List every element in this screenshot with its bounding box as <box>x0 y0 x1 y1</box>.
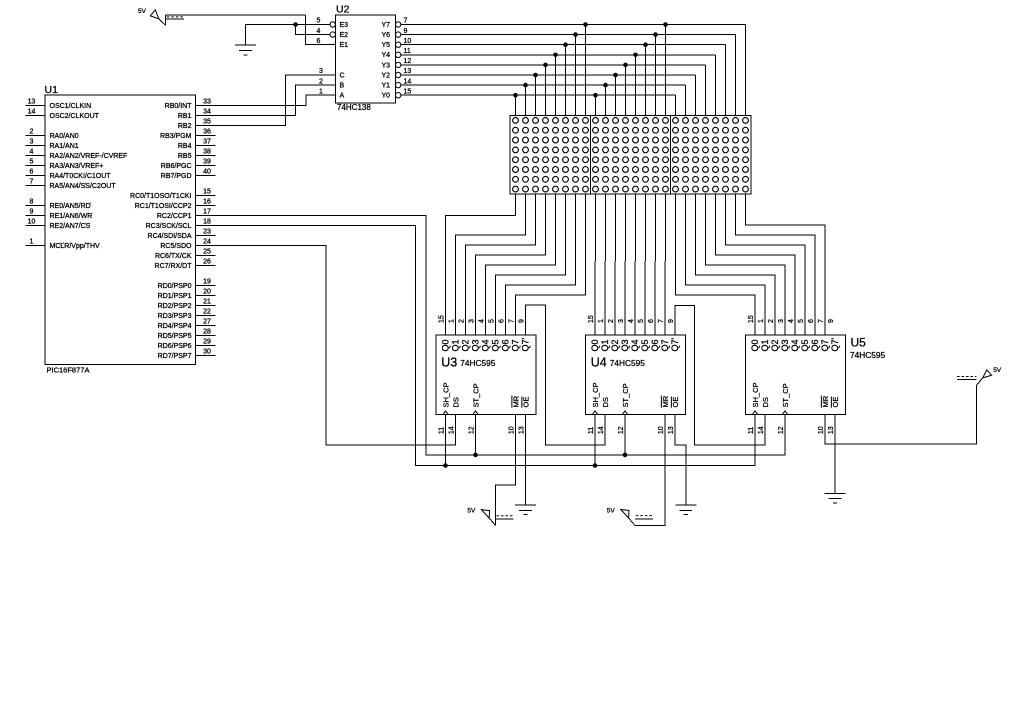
svg-text:5: 5 <box>798 319 805 323</box>
svg-text:2: 2 <box>608 319 615 323</box>
svg-text:13: 13 <box>519 426 526 434</box>
svg-text:29: 29 <box>203 339 211 346</box>
svg-text:5V: 5V <box>138 8 147 15</box>
svg-text:12: 12 <box>404 58 412 65</box>
svg-text:Q2: Q2 <box>461 339 471 351</box>
svg-text:3: 3 <box>469 319 476 323</box>
svg-text:Q6: Q6 <box>501 339 511 351</box>
svg-text:13: 13 <box>828 426 835 434</box>
svg-text:Q3: Q3 <box>471 339 481 351</box>
svg-text:RC5/SDO: RC5/SDO <box>160 243 192 250</box>
svg-text:RA0/AN0: RA0/AN0 <box>50 133 79 140</box>
svg-text:RB2: RB2 <box>178 123 192 130</box>
svg-text:Q3: Q3 <box>780 339 790 351</box>
svg-text:9: 9 <box>668 319 675 323</box>
svg-text:15: 15 <box>203 189 211 196</box>
svg-text:RB0/INT: RB0/INT <box>165 103 193 110</box>
svg-text:Q2: Q2 <box>610 339 620 351</box>
svg-text:7: 7 <box>509 319 516 323</box>
svg-text:10: 10 <box>509 426 516 434</box>
svg-text:Y7: Y7 <box>381 22 390 29</box>
svg-text:30: 30 <box>203 349 211 356</box>
svg-text:RA3/AN3/VREF+: RA3/AN3/VREF+ <box>50 163 104 170</box>
svg-text:OE: OE <box>522 397 531 408</box>
svg-text:RC0/T1OSO/T1CKI: RC0/T1OSO/T1CKI <box>130 193 192 200</box>
svg-text:15: 15 <box>588 315 595 323</box>
svg-text:Y6: Y6 <box>381 32 390 39</box>
svg-text:U3: U3 <box>441 356 457 370</box>
svg-text:5: 5 <box>489 319 496 323</box>
svg-text:RB5: RB5 <box>178 153 192 160</box>
svg-text:U1: U1 <box>45 84 59 96</box>
svg-text:RE1/AN6/WR: RE1/AN6/WR <box>50 213 93 220</box>
svg-text:OE: OE <box>831 397 840 408</box>
svg-text:RC6/TX/CK: RC6/TX/CK <box>155 253 192 260</box>
svg-text:RD7/PSP7: RD7/PSP7 <box>158 353 192 360</box>
svg-text:RB7/PGD: RB7/PGD <box>161 173 192 180</box>
svg-text:RD6/PSP6: RD6/PSP6 <box>158 343 192 350</box>
svg-text:Y0: Y0 <box>381 93 390 100</box>
svg-text:SH_CP: SH_CP <box>442 382 451 407</box>
svg-text:MR: MR <box>821 395 830 407</box>
svg-text:RA4/T0CKI/C1OUT: RA4/T0CKI/C1OUT <box>50 173 112 180</box>
svg-text:74HC595: 74HC595 <box>850 350 885 360</box>
svg-text:SH_CP: SH_CP <box>751 382 760 407</box>
svg-text:OSC1/CLKIN: OSC1/CLKIN <box>50 103 92 110</box>
svg-text:1: 1 <box>449 319 456 323</box>
svg-text:5: 5 <box>30 159 34 166</box>
svg-text:Q1: Q1 <box>600 339 610 351</box>
svg-text:11: 11 <box>404 48 411 55</box>
svg-text:8: 8 <box>30 199 34 206</box>
svg-text:16: 16 <box>203 199 211 206</box>
svg-text:U4: U4 <box>591 356 607 370</box>
svg-text:Q1: Q1 <box>451 339 461 351</box>
svg-text:15: 15 <box>748 315 755 323</box>
svg-text:34: 34 <box>203 109 211 116</box>
svg-text:7: 7 <box>818 319 825 323</box>
svg-text:Q6: Q6 <box>810 339 820 351</box>
svg-text:Q0: Q0 <box>441 339 451 351</box>
svg-text:Q7: Q7 <box>511 339 521 351</box>
svg-text:10: 10 <box>658 426 665 434</box>
svg-text:26: 26 <box>203 259 211 266</box>
svg-text:3: 3 <box>319 68 323 75</box>
svg-text:4: 4 <box>479 319 486 323</box>
svg-text:Q7': Q7' <box>830 337 840 351</box>
svg-text:1: 1 <box>598 319 605 323</box>
svg-text:Y2: Y2 <box>381 72 390 79</box>
svg-text:20: 20 <box>203 289 211 296</box>
svg-text:9: 9 <box>828 319 835 323</box>
svg-text:RB1: RB1 <box>178 113 192 120</box>
svg-text:9: 9 <box>404 28 408 35</box>
svg-text:23: 23 <box>203 229 211 236</box>
svg-text:1: 1 <box>30 239 34 246</box>
svg-text:DS: DS <box>601 397 610 407</box>
svg-text:17: 17 <box>203 209 211 216</box>
svg-text:33: 33 <box>203 99 211 106</box>
svg-text:9: 9 <box>30 209 34 216</box>
svg-text:Q7: Q7 <box>660 339 670 351</box>
svg-text:PIC16F877A: PIC16F877A <box>47 366 90 375</box>
svg-text:RE0/AN5/RD: RE0/AN5/RD <box>50 203 91 210</box>
svg-text:Q2: Q2 <box>770 339 780 351</box>
svg-text:2: 2 <box>459 319 466 323</box>
svg-text:6: 6 <box>317 38 321 45</box>
svg-text:Q7': Q7' <box>521 337 531 351</box>
svg-text:10: 10 <box>818 426 825 434</box>
svg-text:MR: MR <box>661 395 670 407</box>
svg-text:28: 28 <box>203 329 211 336</box>
svg-text:3: 3 <box>30 139 34 146</box>
svg-text:6: 6 <box>808 319 815 323</box>
svg-text:Q4: Q4 <box>790 339 800 351</box>
svg-text:DS: DS <box>761 397 770 407</box>
svg-text:RD5/PSP5: RD5/PSP5 <box>158 333 192 340</box>
svg-text:6: 6 <box>30 169 34 176</box>
svg-text:Q5: Q5 <box>800 339 810 351</box>
svg-text:OE: OE <box>671 397 680 408</box>
svg-text:RB4: RB4 <box>178 143 192 150</box>
svg-text:ST_CP: ST_CP <box>781 383 790 407</box>
svg-text:22: 22 <box>203 309 211 316</box>
svg-text:RC7/RX/DT: RC7/RX/DT <box>155 263 193 270</box>
svg-text:RB6/PGC: RB6/PGC <box>161 163 192 170</box>
svg-text:6: 6 <box>648 319 655 323</box>
svg-text:RD0/PSP0: RD0/PSP0 <box>158 283 192 290</box>
svg-text:MR: MR <box>512 395 521 407</box>
svg-text:RD1/PSP1: RD1/PSP1 <box>158 293 192 300</box>
svg-text:Y4: Y4 <box>381 52 390 59</box>
svg-text:2: 2 <box>30 129 34 136</box>
svg-text:25: 25 <box>203 249 211 256</box>
svg-text:7: 7 <box>658 319 665 323</box>
svg-text:12: 12 <box>778 426 785 434</box>
svg-text:RD4/PSP4: RD4/PSP4 <box>158 323 192 330</box>
svg-text:11: 11 <box>588 427 595 434</box>
svg-text:Q5: Q5 <box>640 339 650 351</box>
svg-text:RC4/SDI/SDA: RC4/SDI/SDA <box>148 233 192 240</box>
svg-text:Q7: Q7 <box>820 339 830 351</box>
svg-text:ST_CP: ST_CP <box>472 383 481 407</box>
svg-text:Q0: Q0 <box>590 339 600 351</box>
svg-text:Y1: Y1 <box>381 83 390 90</box>
svg-text:Q4: Q4 <box>630 339 640 351</box>
svg-text:74HC138: 74HC138 <box>337 103 371 112</box>
svg-text:13: 13 <box>28 99 36 106</box>
svg-text:3: 3 <box>778 319 785 323</box>
svg-text:Y3: Y3 <box>381 62 390 69</box>
svg-text:RB3/PGM: RB3/PGM <box>160 133 192 140</box>
svg-text:Q7': Q7' <box>670 337 680 351</box>
svg-text:5V: 5V <box>467 508 476 515</box>
svg-text:11: 11 <box>748 427 755 434</box>
svg-text:OSC2/CLKOUT: OSC2/CLKOUT <box>50 113 100 120</box>
svg-text:39: 39 <box>203 159 211 166</box>
svg-text:36: 36 <box>203 129 211 136</box>
svg-text:4: 4 <box>788 319 795 323</box>
svg-text:RD3/PSP3: RD3/PSP3 <box>158 313 192 320</box>
svg-text:Q1: Q1 <box>760 339 770 351</box>
svg-text:21: 21 <box>203 299 211 306</box>
svg-text:18: 18 <box>203 219 211 226</box>
svg-text:RA2/AN2/VREF-/CVREF: RA2/AN2/VREF-/CVREF <box>50 153 128 160</box>
svg-text:19: 19 <box>203 279 211 286</box>
svg-text:74HC595: 74HC595 <box>610 358 645 368</box>
svg-text:2: 2 <box>319 78 323 85</box>
svg-text:15: 15 <box>439 315 446 323</box>
svg-text:1: 1 <box>758 319 765 323</box>
svg-text:12: 12 <box>618 426 625 434</box>
svg-text:10: 10 <box>404 38 412 45</box>
svg-text:RC3/SCK/SCL: RC3/SCK/SCL <box>146 223 192 230</box>
svg-text:11: 11 <box>439 427 446 434</box>
svg-text:7: 7 <box>30 179 34 186</box>
svg-text:9: 9 <box>519 319 526 323</box>
svg-text:U2: U2 <box>336 3 350 15</box>
svg-text:5: 5 <box>638 319 645 323</box>
svg-text:E1: E1 <box>340 42 349 49</box>
svg-text:24: 24 <box>203 239 211 246</box>
svg-text:5V: 5V <box>993 367 1002 374</box>
svg-text:38: 38 <box>203 149 211 156</box>
svg-text:15: 15 <box>404 88 412 95</box>
svg-text:74HC595: 74HC595 <box>460 358 495 368</box>
svg-text:27: 27 <box>203 319 211 326</box>
svg-text:Y5: Y5 <box>381 42 390 49</box>
svg-text:RA5/AN4/SS/C2OUT: RA5/AN4/SS/C2OUT <box>50 183 117 190</box>
svg-text:13: 13 <box>404 68 412 75</box>
svg-text:MCLR/Vpp/THV: MCLR/Vpp/THV <box>50 243 101 250</box>
svg-text:4: 4 <box>628 319 635 323</box>
svg-text:12: 12 <box>469 426 476 434</box>
svg-text:RD2/PSP2: RD2/PSP2 <box>158 303 192 310</box>
svg-text:E2: E2 <box>340 32 349 39</box>
svg-text:SH_CP: SH_CP <box>591 382 600 407</box>
svg-text:1: 1 <box>319 88 323 95</box>
svg-text:40: 40 <box>203 169 211 176</box>
svg-text:2: 2 <box>768 319 775 323</box>
svg-text:14: 14 <box>449 426 456 434</box>
svg-text:3: 3 <box>618 319 625 323</box>
svg-text:Q0: Q0 <box>750 339 760 351</box>
svg-text:Q4: Q4 <box>481 339 491 351</box>
svg-text:A: A <box>340 93 345 100</box>
svg-text:14: 14 <box>598 426 605 434</box>
svg-text:ST_CP: ST_CP <box>621 383 630 407</box>
svg-text:14: 14 <box>28 109 36 116</box>
svg-text:C: C <box>340 72 345 79</box>
svg-text:5V: 5V <box>607 508 616 515</box>
svg-text:14: 14 <box>404 78 412 85</box>
svg-text:14: 14 <box>758 426 765 434</box>
svg-text:Q6: Q6 <box>650 339 660 351</box>
svg-text:RA1/AN1: RA1/AN1 <box>50 143 79 150</box>
svg-text:6: 6 <box>499 319 506 323</box>
svg-text:RC1/T1OSI/CCP2: RC1/T1OSI/CCP2 <box>135 203 192 210</box>
svg-text:5: 5 <box>317 18 321 25</box>
svg-text:RE2/AN7/CS: RE2/AN7/CS <box>50 223 91 230</box>
svg-text:35: 35 <box>203 119 211 126</box>
svg-text:4: 4 <box>30 149 34 156</box>
svg-text:7: 7 <box>404 18 408 25</box>
svg-text:E3: E3 <box>340 22 349 29</box>
svg-text:DS: DS <box>452 397 461 407</box>
svg-text:Q3: Q3 <box>620 339 630 351</box>
svg-text:U5: U5 <box>851 336 867 350</box>
svg-text:B: B <box>340 83 345 90</box>
svg-text:RC2/CCP1: RC2/CCP1 <box>157 213 192 220</box>
svg-text:4: 4 <box>317 28 321 35</box>
svg-text:37: 37 <box>203 139 211 146</box>
svg-text:Q5: Q5 <box>491 339 501 351</box>
svg-text:10: 10 <box>28 219 36 226</box>
svg-text:13: 13 <box>668 426 675 434</box>
